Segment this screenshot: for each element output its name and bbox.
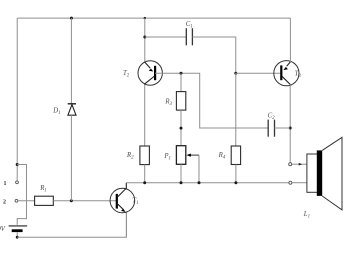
node H: C1/R4/T3-base junction — [234, 72, 237, 75]
transistor T3 (PNP, bar left) — [274, 61, 299, 86]
wire: lower terminal to speaker — [292, 182, 307, 184]
node A: top rail / D1 branch junction — [70, 17, 73, 20]
node C: left rail battery branch junction — [16, 163, 19, 166]
current direction arrow on upper speaker lead — [299, 163, 303, 166]
wire: P1 bottom to mid bus — [180, 164, 182, 182]
node: P1 / mid bus junction — [180, 181, 183, 184]
terminal 2 — [15, 199, 18, 202]
node: battery minus / bottom return — [16, 236, 19, 239]
wire: D1 branch lower segment — [70, 115, 72, 201]
loudspeaker L1 — [307, 137, 342, 210]
wire: T2 base to corner, down, and right to C2 — [155, 73, 268, 128]
svg-text:9V: 9V — [0, 226, 6, 233]
node: R2 / mid bus junction — [143, 181, 146, 184]
capacitor C1 — [186, 28, 192, 45]
terminal 1 — [16, 181, 19, 184]
transistor T2 (PNP, bar right) — [138, 61, 162, 85]
wire: mid bus from T1 collector to speaker — [126, 182, 288, 184]
wire: R4 bottom to mid bus — [235, 165, 237, 183]
svg-text:2: 2 — [3, 199, 6, 205]
wire: R3 top lead — [180, 73, 182, 91]
node G: dot between R3 and P1 — [180, 127, 183, 130]
node: wiper / mid bus junction — [198, 181, 201, 184]
node: R4 / mid bus junction — [234, 181, 237, 184]
wire: R1 to T1 base — [53, 200, 116, 202]
node F: R3 branch junction on T2 base wire — [180, 72, 183, 75]
speaker terminal lower — [289, 181, 292, 184]
svg-text:R3: R3 — [164, 98, 172, 107]
wire: T3 emitter lead down to speaker terminal — [289, 85, 291, 163]
wire: left rail from top rail down to terminal 1 — [16, 18, 18, 181]
node D: D1 / T1 base junction — [70, 199, 73, 202]
svg-text:P1: P1 — [163, 153, 171, 162]
wire: battery branch (jog right and down to battery +) — [17, 165, 26, 225]
node B: top rail / T2 emitter junction — [144, 17, 146, 19]
resistor R2 — [140, 146, 150, 165]
wire: battery minus lead down — [16, 232, 18, 237]
wire: R3 bottom to P1 top — [180, 110, 182, 146]
wire: top supply rail — [17, 17, 290, 19]
svg-text:T2: T2 — [123, 70, 130, 79]
transistor T1 (NPN) — [110, 183, 135, 237]
resistor R1 — [35, 196, 54, 205]
svg-text:D1: D1 — [52, 107, 60, 116]
svg-text:R2: R2 — [126, 152, 134, 161]
svg-text:T1: T1 — [132, 198, 138, 207]
resistor R3 — [176, 92, 185, 111]
svg-text:R1: R1 — [39, 185, 47, 194]
wire: C1 branch left (node E to C1) — [145, 36, 187, 38]
node I: C2 / T3 emitter junction — [289, 127, 292, 130]
node E: C1 branch junction on T2 emitter lead — [143, 36, 146, 39]
wire: terminal 2 to R1 — [18, 200, 34, 202]
wire: T2 collector lead down to R2 — [144, 84, 146, 146]
wire: T2 emitter lead (top rail to circle) — [144, 18, 146, 62]
wire: D1 branch upper segment — [70, 18, 72, 103]
svg-text:1: 1 — [4, 181, 7, 187]
resistor R4 — [231, 146, 240, 165]
wire: T3 base wire — [236, 72, 281, 74]
wiper arm of P1 with arrow — [186, 154, 199, 183]
wire: node H down to R4 — [235, 73, 237, 146]
svg-text:L1: L1 — [303, 211, 310, 220]
battery B1 9V — [9, 226, 28, 231]
diode D1 — [68, 104, 76, 115]
wire: R2 to mid bus — [144, 165, 146, 183]
wire: C1 right to corner and down to node H — [192, 37, 235, 73]
wire: C2 right plate to node I — [275, 127, 291, 129]
capacitor C2 — [268, 120, 274, 137]
wire: bottom return from battery to T1 emitter — [17, 212, 126, 237]
potentiometer P1 — [176, 146, 185, 165]
speaker terminal upper — [289, 163, 292, 166]
svg-text:R4: R4 — [218, 152, 226, 161]
wire: upper terminal to speaker — [292, 163, 307, 165]
svg-text:T3: T3 — [295, 70, 302, 79]
wire: T3 collector lead up to top rail — [289, 18, 291, 62]
